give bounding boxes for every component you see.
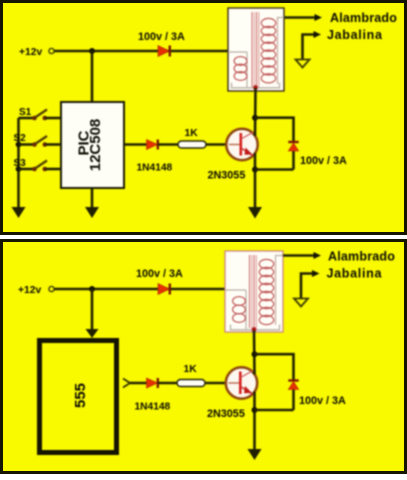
panel 2 frame xyxy=(2,241,406,473)
wire diode to resistor (panel 1) xyxy=(158,143,178,146)
ground (Jabalina, panel 1) xyxy=(296,60,310,68)
transistor Q2 2N3055 (panel 2) xyxy=(226,367,257,398)
wire +12v rail (panel 1) xyxy=(55,50,228,53)
ground (Jabalina, panel 2) xyxy=(294,299,308,307)
secondary winding return wire xyxy=(275,261,277,325)
diode D2 1N4148 (panel 1) xyxy=(147,140,158,150)
wire secondary to Alambrado xyxy=(284,16,315,19)
op-amp U2 555 timer box xyxy=(40,341,117,453)
primary top lead xyxy=(225,289,246,291)
wire PIC ground lead xyxy=(91,188,94,208)
svg-text:Jabalina: Jabalina xyxy=(327,28,383,42)
wire flyback branch (panel 1) xyxy=(255,118,294,141)
core lines xyxy=(251,12,253,87)
transformer T1 (panel 1) xyxy=(228,8,284,91)
svg-text:100v / 3A: 100v / 3A xyxy=(299,395,346,407)
svg-text:1K: 1K xyxy=(185,128,199,139)
diode D4 100v/3A (panel 2 rail) xyxy=(158,284,170,295)
primary winding xyxy=(234,57,247,66)
wire resistor to transistor base (panel 2) xyxy=(205,382,227,385)
ground (PIC, panel 1) xyxy=(85,207,99,218)
arrow Jabalina (panel 2) xyxy=(312,270,320,277)
wire 555 output to diode (panel 2) xyxy=(130,382,147,385)
resistor R1 1K (panel 1) xyxy=(178,141,206,148)
diode D5 1N4148 (panel 2) xyxy=(147,378,158,388)
secondary winding return wire xyxy=(277,18,279,84)
wire PIC output to diode (panel 1) xyxy=(124,143,147,146)
ground (emitter, panel 2) xyxy=(248,449,262,460)
diode D6 flyback 100v/3A (panel 2) xyxy=(288,381,298,390)
svg-text:+12v: +12v xyxy=(18,285,41,296)
wire junction to 555 with arrow (panel 2) xyxy=(91,289,94,330)
svg-text:100v / 3A: 100v / 3A xyxy=(300,155,347,167)
svg-text:S1: S1 xyxy=(19,107,32,118)
primary winding xyxy=(233,297,246,306)
svg-text:1K: 1K xyxy=(184,364,198,375)
svg-text:2N3055: 2N3055 xyxy=(208,170,246,182)
secondary top lead xyxy=(278,18,285,21)
junction transformer bottom xyxy=(253,85,258,90)
transistor Q1 2N3055 (panel 1) xyxy=(226,129,257,160)
wire transformer to collector node (panel 2) xyxy=(253,331,256,375)
panel 1 frame xyxy=(2,2,406,234)
svg-text:Alambrado: Alambrado xyxy=(330,11,397,25)
primary top lead xyxy=(228,51,247,53)
arrow 555 output (panel 2) xyxy=(123,379,130,388)
wire flyback branch (panel 2) xyxy=(255,354,294,379)
core lines xyxy=(249,255,251,328)
wire secondary to Alambrado (panel 2) xyxy=(283,254,314,257)
wire transformer to collector node (panel 1) xyxy=(254,88,257,136)
wire Jabalina branch (panel 2) xyxy=(301,274,312,299)
wire resistor to transistor base (panel 1) xyxy=(206,143,228,146)
diode D3 flyback 100v/3A (panel 1) xyxy=(288,142,298,151)
svg-text:100v / 3A: 100v / 3A xyxy=(138,31,185,43)
svg-text:Jabalina: Jabalina xyxy=(327,267,383,281)
junction transformer bottom xyxy=(252,327,257,332)
svg-text:555: 555 xyxy=(72,383,89,408)
wire emitter to ground node (panel 1) xyxy=(254,153,257,208)
junction collector (panel 2) xyxy=(252,351,258,357)
wire Jabalina branch (panel 1) xyxy=(303,35,315,60)
ground (emitter, panel 1) xyxy=(248,207,262,219)
svg-text:1N4148: 1N4148 xyxy=(135,402,171,413)
junction rail/555 supply (panel 2) xyxy=(89,286,95,292)
secondary top lead xyxy=(276,256,284,263)
wire junction to PIC pin (panel 1) xyxy=(91,51,94,102)
ground (switch bus, panel 1) xyxy=(12,207,26,218)
arrow Alambrado (panel 2) xyxy=(314,252,322,259)
switch S3 xyxy=(14,158,62,172)
primary winding return wire xyxy=(246,52,248,87)
switch S1 xyxy=(19,107,62,120)
wire diode to resistor (panel 2) xyxy=(158,382,177,385)
secondary winding xyxy=(259,259,273,268)
bottom bracket lead xyxy=(231,325,280,330)
svg-text:1N4148: 1N4148 xyxy=(137,163,173,174)
svg-text:12C508: 12C508 xyxy=(87,119,104,172)
junction collector (panel 1) xyxy=(252,115,258,121)
switch S2 xyxy=(14,133,62,147)
secondary winding xyxy=(261,18,275,27)
svg-text:100v / 3A: 100v / 3A xyxy=(136,268,183,280)
svg-text:Alambrado: Alambrado xyxy=(328,250,395,264)
arrow Alambrado (panel 1) xyxy=(315,14,323,21)
op-amp U1 PIC 12C508 box xyxy=(61,102,124,188)
arrow into 555 xyxy=(86,329,99,338)
arrow Jabalina (panel 1) xyxy=(314,31,322,38)
wire emitter to ground node (panel 2) xyxy=(253,392,256,451)
resistor R2 1K (panel 2) xyxy=(177,380,205,387)
svg-text:+12v: +12v xyxy=(19,47,42,58)
junction emitter (panel 2) xyxy=(252,407,258,413)
diode D1 100v/3A (panel 1 rail) xyxy=(158,46,170,57)
bottom bracket lead xyxy=(232,83,280,88)
junction rail/PIC supply (panel 1) xyxy=(89,48,95,54)
svg-text:2N3055: 2N3055 xyxy=(207,408,245,420)
transformer T2 (panel 2) xyxy=(225,251,283,332)
junction emitter (panel 1) xyxy=(252,167,258,173)
primary winding return wire xyxy=(245,290,247,329)
wire switch bus vertical (panel 1) xyxy=(17,118,20,208)
wire +12v rail (panel 2) xyxy=(55,288,226,291)
